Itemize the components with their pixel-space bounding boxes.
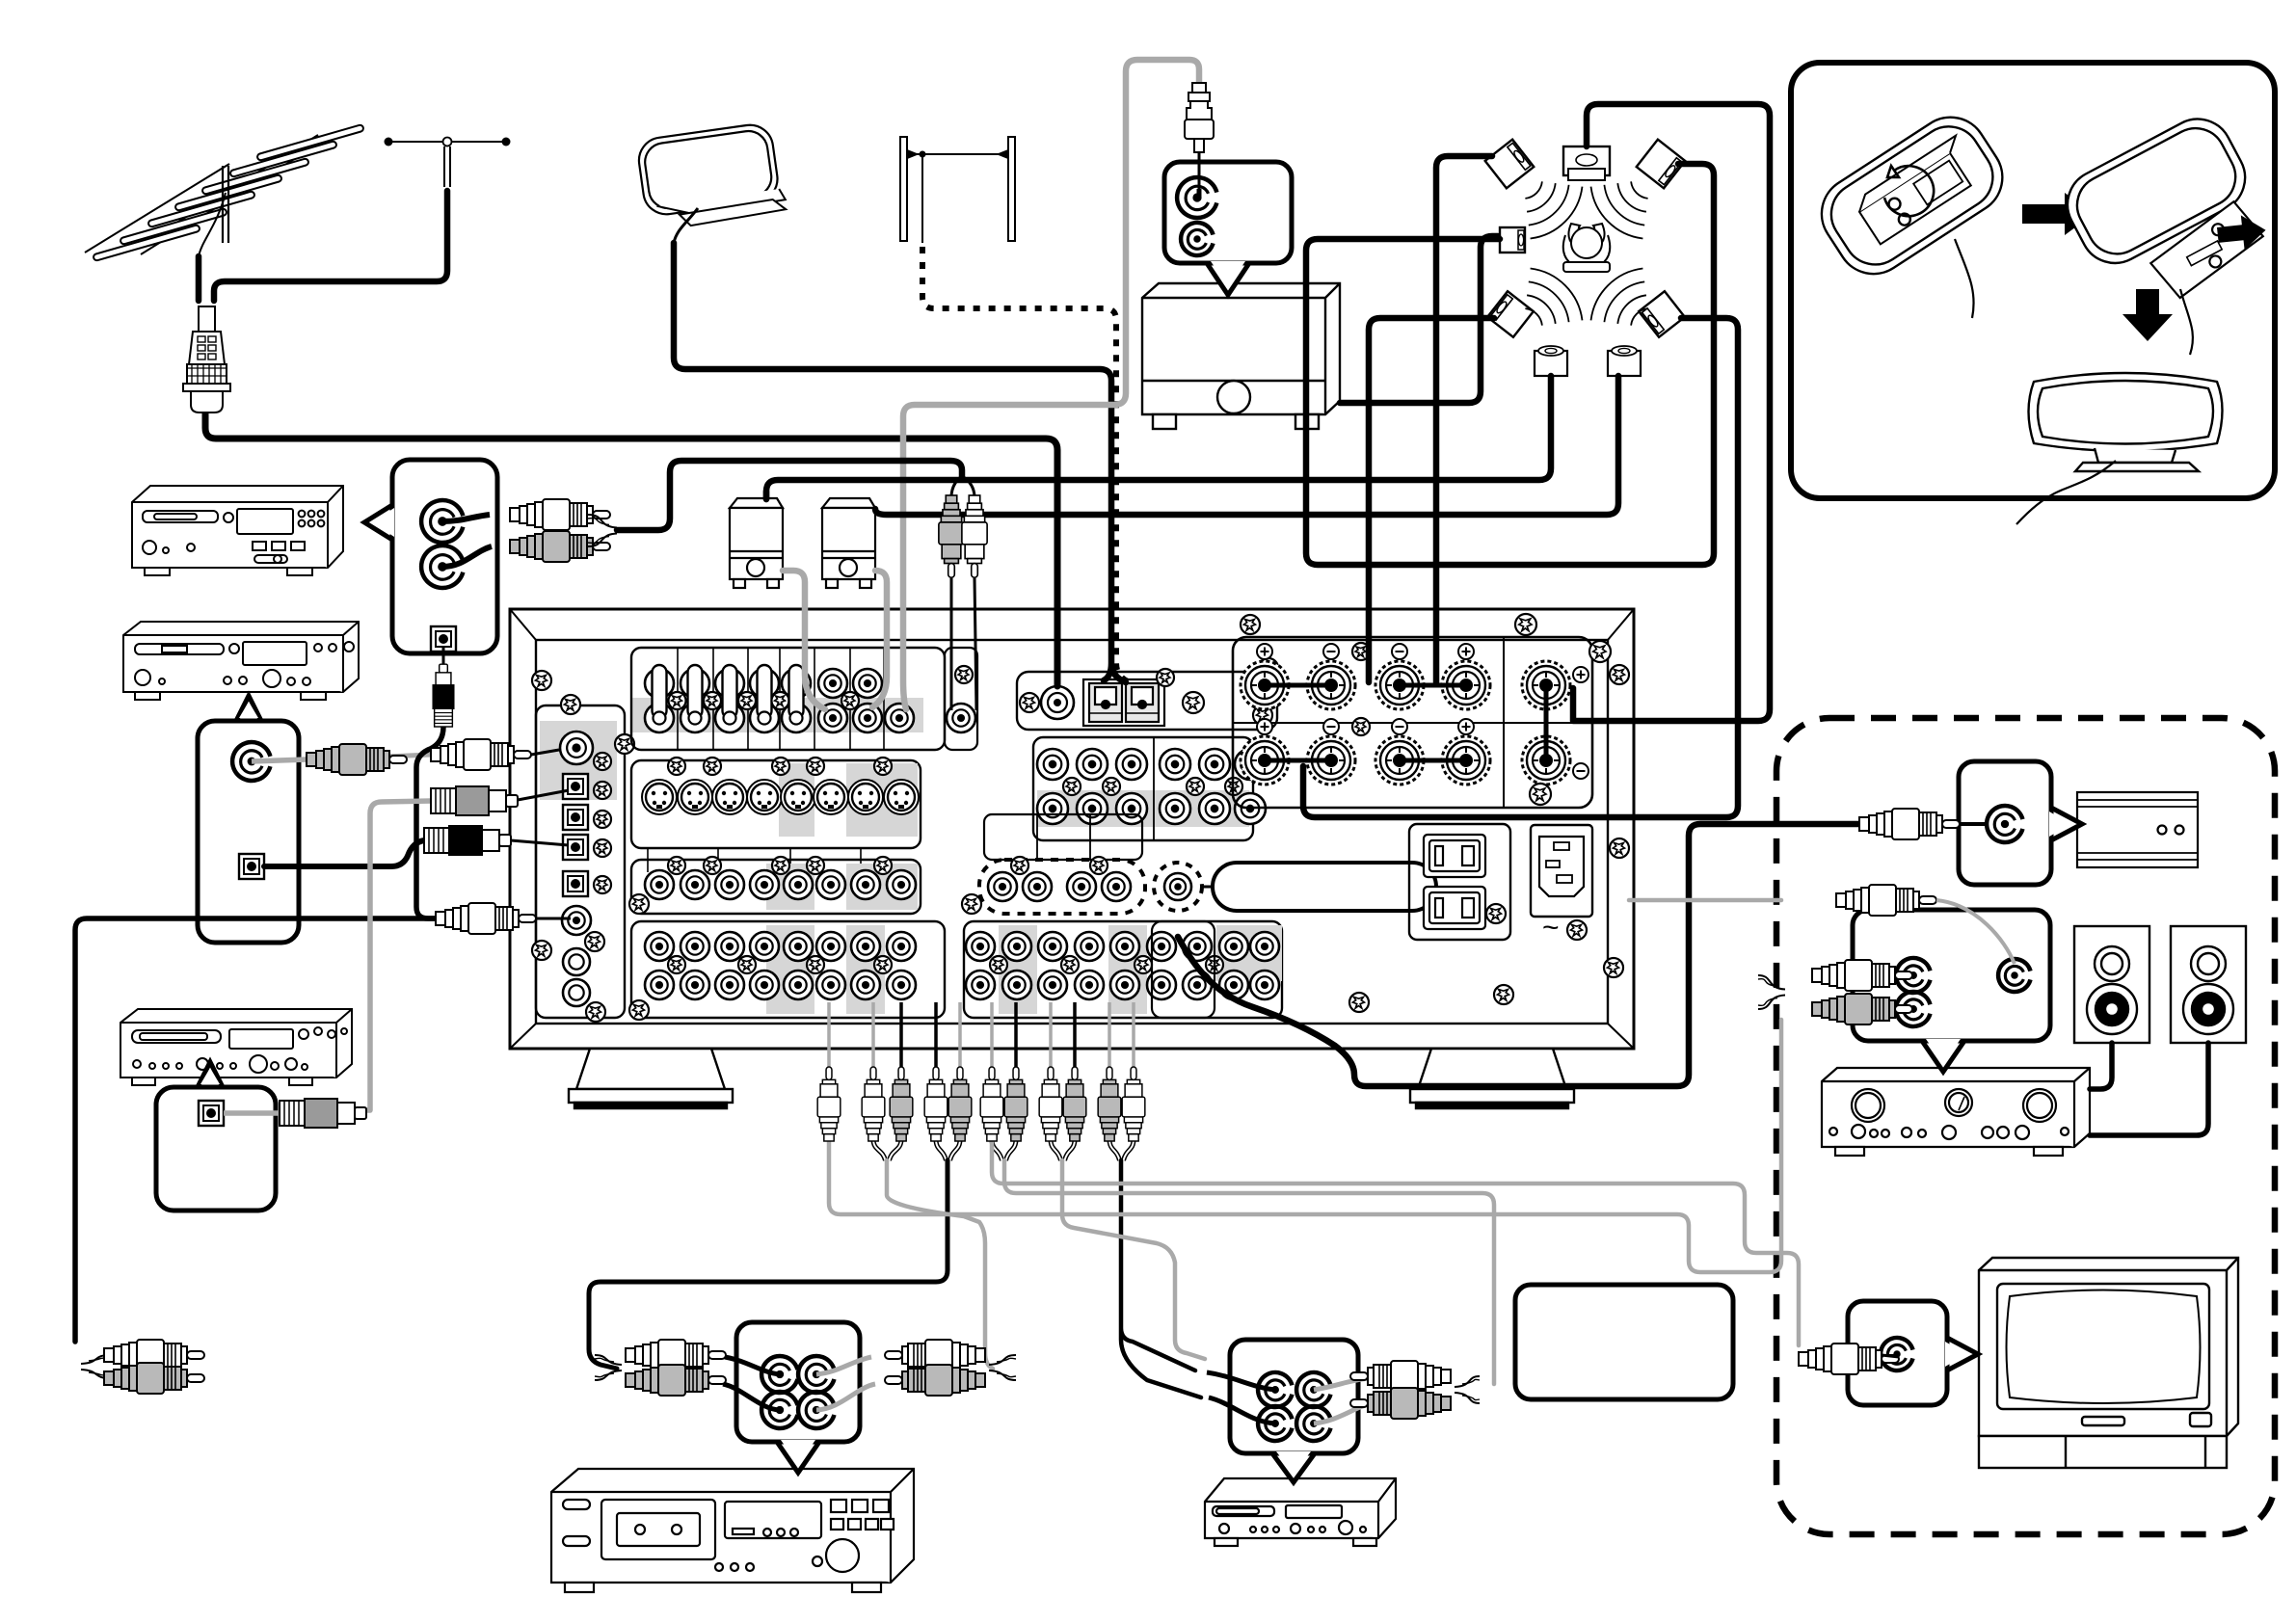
optical plug black (tape)	[424, 826, 511, 855]
wire: plug pair merges	[873, 1139, 901, 1160]
wire: spare twisted pair	[81, 1355, 110, 1378]
RCA plug 8	[1049, 1002, 1053, 1068]
callout: CD analog jacks	[392, 460, 497, 653]
wire: MD optical lead	[224, 1110, 280, 1116]
wire: MD optical cable to receiver	[366, 801, 431, 1110]
RCA plug 10	[1108, 1002, 1111, 1068]
room layout: front-left speaker	[1485, 140, 1535, 189]
callout: tape deck jacks	[736, 1322, 860, 1442]
integrated amplifier	[1822, 1068, 2090, 1156]
wire: surround-left to front-right loop	[1306, 164, 1714, 565]
receiver antenna terminal block	[1017, 672, 1277, 730]
AC outlets	[1409, 824, 1510, 940]
wire: dvd-record cable	[1121, 1160, 1201, 1397]
antenna adapter plug	[1185, 83, 1214, 191]
receiver speaker terminal block	[1233, 637, 1592, 808]
arrow right	[2022, 193, 2094, 235]
dashed zone: optional amplifier connection	[1776, 718, 2275, 1534]
RCA plug vertical white (CD R)	[962, 495, 987, 577]
callout: speaker B terminals	[1853, 910, 2050, 1041]
RCA plug white (monitor)	[436, 903, 536, 934]
RCA plug 7	[1014, 1002, 1018, 1068]
AM/FM spring terminals	[1083, 679, 1164, 726]
wire: rear-left speaker cable	[1369, 318, 1494, 682]
receiver 6ch input bank	[1033, 737, 1253, 840]
instruction panel: AM loop assembly	[1791, 63, 2275, 498]
wire: surround-back right speaker cable	[875, 376, 1618, 515]
wire: tape-record cable	[589, 1160, 948, 1369]
optical plug white (MD to receiver)	[431, 786, 518, 815]
callout: DVD/MD jacks	[1230, 1340, 1358, 1453]
RCA plug white (spk B L)	[1812, 960, 1912, 991]
CD player	[132, 486, 343, 575]
callout: subwoofer input jacks	[1164, 162, 1292, 263]
room layout: rear-right speaker	[1639, 291, 1685, 337]
wire: coax from F plug to receiver 75-ohm jack	[205, 412, 1057, 686]
wire: CD cable to receiver	[617, 461, 962, 530]
wire: center speaker cable	[1573, 104, 1770, 721]
room layout: surround-back left speaker	[1535, 346, 1567, 376]
RCA plug white (spare)	[104, 1340, 204, 1370]
dotted circle jack	[1154, 863, 1202, 911]
RCA plugs into tape callout (right)	[816, 1357, 871, 1374]
room layout: sound arcs	[1525, 181, 1582, 238]
F-connector plug	[183, 306, 230, 412]
wire: optical lead	[264, 840, 424, 866]
wire: rear-right speaker cable	[1303, 318, 1738, 817]
room layout: center speaker	[1563, 146, 1610, 180]
wire: speaker A cable to receiver	[763, 492, 770, 499]
AV receiver rear panel	[510, 609, 1634, 1049]
receiver ext decoder jacks (dotted group)	[979, 860, 1145, 914]
RCA plug 3	[899, 1002, 903, 1068]
wire: CD twisted pair	[588, 515, 617, 546]
wire: yagi downlead	[196, 256, 202, 301]
wire: speaker jumper links	[1265, 685, 1466, 760]
callout: MD optical jack	[156, 1087, 276, 1211]
RCA plug gray (CD R)	[510, 531, 610, 562]
room layout: listener	[1563, 224, 1611, 272]
wire: speaker B cables to amplifier	[2090, 1043, 2112, 1089]
RCA plug 4	[934, 1002, 938, 1068]
RCA plug 1	[827, 1002, 831, 1068]
receiver left input column	[540, 721, 617, 800]
surround-back speaker A	[730, 498, 783, 588]
receiver ext decoder group header	[984, 814, 1142, 860]
loop antenna step 1	[1807, 103, 2016, 288]
receiver pre-out/main-in bank	[632, 698, 923, 732]
wire: right-going cables from plugs	[829, 1020, 1781, 1272]
RCA plug white (spk B top)	[1836, 885, 1936, 916]
wire: FM feeder (dotted) to receiver	[922, 247, 1130, 682]
powered subwoofer	[2077, 792, 2198, 867]
wire: subwoofer to surround speaker	[1340, 236, 1498, 403]
optical out jack on CD callout	[431, 626, 456, 652]
RCA plugs into tape callout (left)	[725, 1357, 780, 1374]
wire: gray line into right jack	[1629, 898, 1781, 903]
receiver video column dividers	[648, 848, 861, 872]
callout: tape jacks	[198, 721, 299, 943]
room layout: surround-back right speaker	[1608, 346, 1641, 376]
svg-text:~: ~	[1542, 912, 1560, 944]
RCA plug white (TV)	[1799, 1344, 1899, 1374]
AM loop antenna	[636, 121, 788, 231]
RCA plug gray (tape)	[307, 744, 407, 775]
antenna mast	[223, 166, 228, 243]
room layout: surround-left speaker	[1500, 227, 1525, 253]
optical plug gray (MD)	[280, 1099, 366, 1128]
wire: monitor cable long run	[75, 918, 436, 1342]
RCA plug white (CD L)	[510, 499, 610, 530]
MD/tape deck	[123, 622, 359, 700]
wire: tape-play gray cable	[887, 1160, 993, 1369]
receiver 8ch output rows	[964, 921, 1282, 1018]
wire: monitor-out cable to TV spare plugs	[416, 727, 443, 918]
blank note box	[1515, 1285, 1733, 1399]
RCA plug gray (spk B R)	[1812, 994, 1912, 1024]
wire: tape analog lead	[252, 759, 307, 761]
speaker B left	[2074, 926, 2149, 1043]
wire: dvd-play lead	[1062, 1160, 1205, 1359]
room layout: front-right speaker	[1637, 140, 1686, 189]
subwoofer	[1142, 283, 1340, 429]
loop antenna step 2	[2055, 107, 2256, 276]
television	[1979, 1258, 2238, 1468]
receiver video jack bank	[631, 860, 921, 914]
wire: speaker B gray cable	[872, 571, 887, 707]
receiver audio jack bank	[631, 921, 945, 1018]
MD recorder	[120, 1009, 352, 1085]
wire: gray coax from adapter to receiver	[903, 60, 1199, 709]
AC power inlet	[1531, 825, 1592, 917]
wire: front-left speaker cable	[1436, 156, 1492, 682]
RCA plug vertical gray (CD L)	[939, 495, 964, 577]
wire: CD jack leads	[442, 515, 490, 521]
wire: subwoofer pre-out cable	[1178, 824, 1859, 1086]
antenna lead wire	[199, 193, 226, 256]
optical plug vertical (CD out)	[442, 648, 445, 675]
RCA plug white (sub)	[1859, 809, 1960, 839]
room layout: rear-left speaker	[1487, 291, 1534, 337]
wire: twisted pair to speaker B callout	[1758, 975, 1785, 1009]
receiver foot right	[1410, 1049, 1574, 1108]
DVD/MD player	[1205, 1478, 1396, 1546]
RCA plug 11	[1132, 1002, 1135, 1068]
RCA plug white (tape in)	[431, 739, 531, 770]
RCA plugs into DVD callout (right)	[1314, 1378, 1369, 1390]
RCA plug 5	[958, 1002, 962, 1068]
wire: surround-back left speaker cable	[766, 376, 1551, 499]
cassette tape deck	[551, 1469, 914, 1592]
receiver foot left	[569, 1049, 733, 1108]
RCA plug 6	[990, 1002, 994, 1068]
wire: FM dipole feedline to F plug	[214, 191, 447, 301]
RCA plug 9	[1073, 1002, 1077, 1068]
TV antenna (yagi)	[85, 124, 364, 261]
wire: speaker A gray cable	[783, 571, 825, 709]
blank plate	[1213, 863, 1436, 911]
RCA plug gray (spare)	[104, 1363, 204, 1394]
FM indoor folded antenna	[900, 137, 1015, 243]
wire: AM loop lead	[674, 208, 698, 243]
speaker B right	[2171, 926, 2246, 1043]
FM dipole antenna	[388, 141, 506, 143]
wire: AM antenna cable to receiver	[674, 243, 1126, 682]
arrow down	[2122, 289, 2173, 341]
RCA plug 2	[871, 1002, 875, 1068]
75-ohm antenna jack	[1041, 686, 1074, 719]
callout: TV video input	[1848, 1301, 1947, 1405]
callout: subwoofer pre-out	[1959, 761, 2051, 885]
surround-back speaker B	[822, 498, 875, 588]
receiver sub out jack	[1152, 921, 1215, 1018]
receiver S-video bank	[631, 760, 921, 848]
wire: black cables into DVD callout	[1207, 1372, 1275, 1390]
loop antenna step 3 (assembled)	[2029, 373, 2223, 471]
